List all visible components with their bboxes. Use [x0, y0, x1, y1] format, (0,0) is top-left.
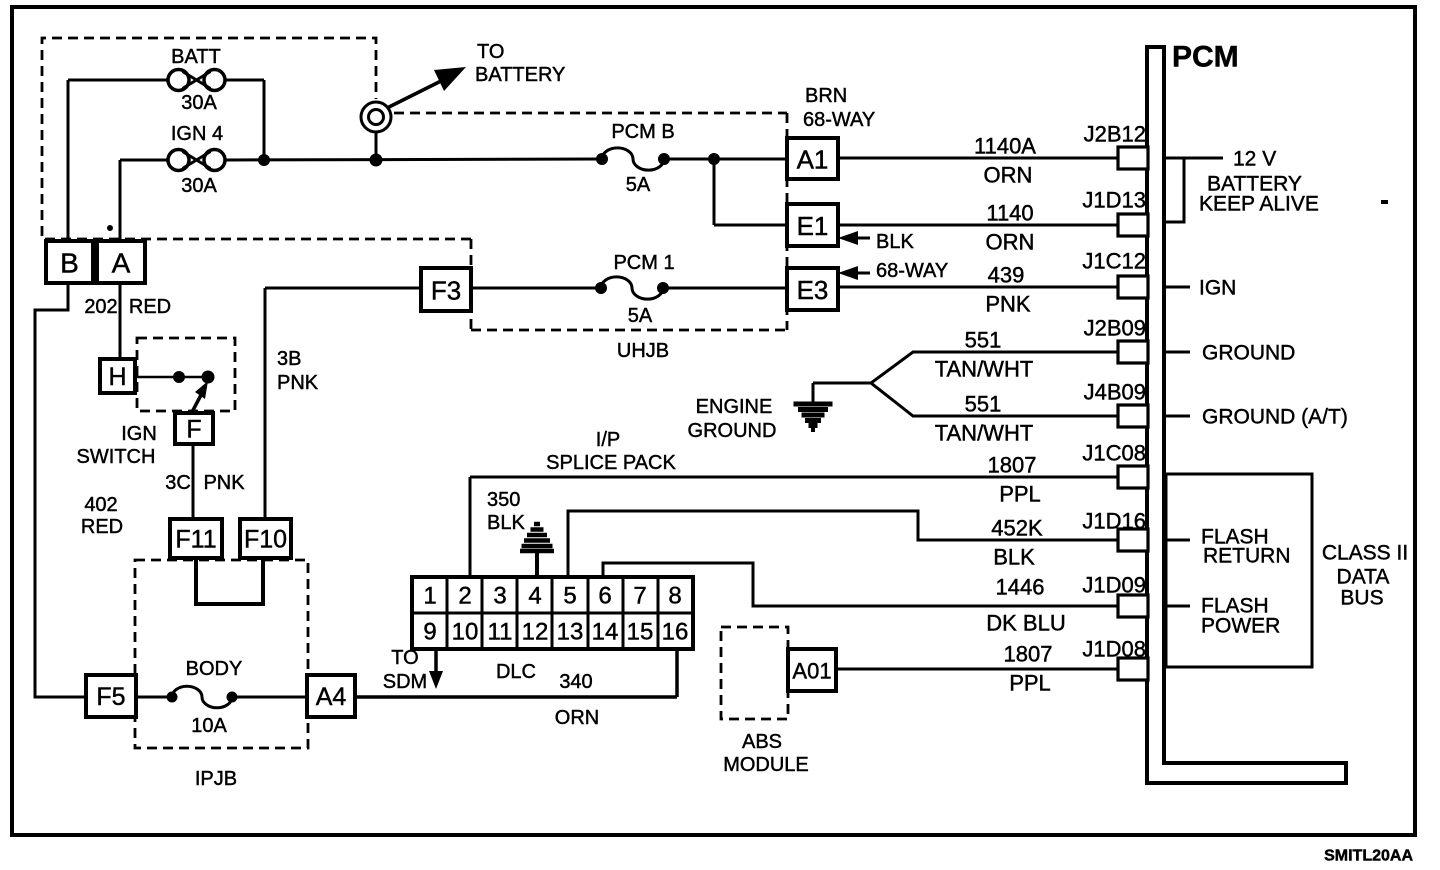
IPJB dashed enclosure — [135, 560, 308, 748]
terminal A4 — [307, 675, 355, 717]
svg-text:BLK: BLK — [876, 231, 914, 253]
svg-text:2: 2 — [458, 583, 471, 610]
svg-text:PCM 1: PCM 1 — [613, 252, 674, 274]
wire BODY fuse to A4 — [232, 696, 309, 699]
svg-text:7: 7 — [633, 583, 646, 610]
svg-text:IGN 4: IGN 4 — [171, 123, 223, 145]
PCM pin J1D16 — [1082, 509, 1148, 552]
FLASH POWER stub — [1166, 605, 1190, 608]
PCM pin J1C08 — [1082, 441, 1148, 489]
junction dot — [258, 154, 270, 166]
fuse PCM B 5A — [596, 148, 670, 170]
PCM pin J4B09 — [1084, 380, 1148, 428]
svg-text:A01: A01 — [792, 659, 831, 684]
svg-text:BATTERY: BATTERY — [475, 64, 565, 86]
wire IGN4 to PCM B fuse — [225, 159, 602, 160]
wire to engine ground — [813, 382, 871, 385]
wire 439 PNK E3 to J1C12 — [838, 286, 1120, 289]
wire label 1807 PPL — [1004, 642, 1053, 696]
svg-text:A1: A1 — [797, 145, 829, 175]
dashed UHJB enclosure left — [470, 239, 473, 330]
TO SDM arrow — [434, 649, 438, 676]
wire junction down to E1 level — [713, 159, 716, 225]
svg-text:A: A — [112, 248, 131, 279]
svg-text:452K: 452K — [991, 516, 1043, 541]
wire to terminal E1 — [714, 224, 790, 227]
svg-text:3B: 3B — [277, 348, 301, 370]
wire 1140A ORN A1 to J2B12 — [838, 157, 1120, 160]
svg-text:13: 13 — [557, 619, 584, 646]
svg-text:BODY: BODY — [186, 658, 243, 680]
svg-text:PPL: PPL — [999, 482, 1041, 507]
svg-text:H: H — [108, 363, 126, 391]
svg-text:J1D16: J1D16 — [1082, 509, 1146, 534]
svg-text:KEEP ALIVE: KEEP ALIVE — [1199, 193, 1319, 216]
connector strap F11-F10 — [196, 556, 263, 604]
svg-text:DK BLU: DK BLU — [986, 611, 1065, 636]
svg-text:BLK: BLK — [487, 512, 525, 534]
svg-text:5: 5 — [563, 583, 576, 610]
svg-text:SPLICE PACK: SPLICE PACK — [546, 452, 676, 474]
wire down to terminal B — [67, 80, 70, 243]
svg-text:340: 340 — [559, 671, 592, 693]
svg-text:1446: 1446 — [996, 575, 1045, 600]
svg-text:DLC: DLC — [496, 661, 536, 683]
svg-text:ENGINE: ENGINE — [696, 396, 773, 418]
svg-text:J1D09: J1D09 — [1082, 573, 1146, 598]
splice pack tree symbol (350 BLK) — [520, 524, 554, 579]
PCM pin J1D09 — [1082, 573, 1148, 618]
svg-text:IGN: IGN — [121, 423, 157, 445]
svg-text:8: 8 — [668, 583, 681, 610]
svg-text:MODULE: MODULE — [723, 754, 809, 776]
PCM pin J1C12 — [1082, 249, 1148, 299]
svg-text:RED: RED — [129, 296, 171, 318]
svg-text:1: 1 — [423, 583, 436, 610]
PCM pin J2B12 — [1084, 122, 1148, 170]
PCM pin J1D13 — [1082, 188, 1148, 237]
terminal F (ign switch) — [175, 413, 213, 444]
ABS MODULE dashed enclosure — [721, 627, 788, 719]
wire label 551 TAN/WHT — [935, 328, 1034, 382]
svg-text:10A: 10A — [191, 715, 227, 737]
svg-text:30A: 30A — [181, 175, 217, 197]
svg-text:ABS: ABS — [742, 731, 782, 753]
wire 3C PNK from F to F11 — [192, 444, 195, 521]
svg-text:F: F — [186, 416, 201, 444]
wire F3 to PCM 1 fuse — [471, 287, 601, 290]
svg-text:ORN: ORN — [555, 707, 599, 729]
svg-text:402: 402 — [84, 494, 117, 516]
dashed BRN 68-way connector edge — [786, 113, 789, 330]
svg-text:E3: E3 — [797, 275, 829, 305]
svg-text:POWER: POWER — [1201, 615, 1280, 638]
svg-text:F5: F5 — [96, 683, 125, 711]
wire F5 to BODY fuse — [136, 696, 172, 699]
svg-text:GROUND: GROUND — [688, 420, 777, 442]
svg-text:PNK: PNK — [985, 292, 1031, 317]
svg-text:12: 12 — [522, 619, 549, 646]
svg-text:1140A: 1140A — [974, 134, 1036, 159]
wire ground drop — [812, 383, 815, 403]
battery ring connector — [361, 102, 391, 132]
svg-text:3: 3 — [493, 583, 506, 610]
svg-text:IGN: IGN — [1199, 277, 1236, 300]
svg-text:SWITCH: SWITCH — [77, 446, 156, 468]
FLASH RETURN stub — [1166, 539, 1190, 542]
wire 1807 PPL from A01 to J1D08 — [838, 668, 1120, 671]
svg-text:PNK: PNK — [203, 472, 245, 494]
svg-text:E1: E1 — [797, 211, 829, 241]
fuse PCM 1 5A — [595, 277, 669, 299]
wire H to switch contacts — [135, 376, 208, 379]
terminal F10 — [240, 519, 291, 558]
svg-text:RED: RED — [81, 516, 123, 538]
svg-text:10: 10 — [452, 619, 479, 646]
wire to F3 left — [265, 287, 423, 290]
PCM module outline — [1147, 47, 1346, 783]
svg-text:4: 4 — [528, 583, 541, 610]
svg-text:DATA: DATA — [1337, 566, 1390, 589]
GROUND stub — [1164, 351, 1190, 354]
svg-text:RETURN: RETURN — [1203, 545, 1291, 568]
wire 340 ORN from A4 to DLC pin16 — [355, 695, 677, 699]
terminal F3 — [421, 268, 471, 311]
svg-text:PCM B: PCM B — [611, 121, 674, 143]
svg-text:BATT: BATT — [171, 46, 221, 68]
svg-text:J2B09: J2B09 — [1084, 316, 1146, 341]
wire circle to junction — [375, 133, 378, 160]
wire 402 RED from B to F5 — [35, 283, 88, 697]
svg-text:551: 551 — [965, 392, 1002, 417]
svg-text:551: 551 — [965, 328, 1002, 353]
svg-text:TO: TO — [477, 41, 504, 63]
dashed wire to BRN 68-way connector — [394, 112, 787, 115]
switch contact dot — [173, 371, 185, 383]
svg-text:BLK: BLK — [993, 545, 1035, 570]
svg-text:F10: F10 — [244, 526, 287, 554]
dashed junction block enclosure (BATT/IGN fuses) — [42, 38, 471, 239]
svg-text:TAN/WHT: TAN/WHT — [935, 421, 1034, 446]
svg-text:14: 14 — [592, 619, 619, 646]
svg-text:J2B12: J2B12 — [1084, 122, 1146, 147]
12V battery keep alive bracket — [1164, 158, 1184, 222]
IGN stub — [1164, 286, 1190, 289]
stray mark — [1381, 200, 1388, 204]
svg-text:68-WAY: 68-WAY — [876, 260, 948, 282]
connector arrow at E1 — [838, 231, 870, 245]
svg-text:30A: 30A — [181, 92, 217, 114]
svg-text:IPJB: IPJB — [195, 768, 237, 790]
wire BATT fuse left lead — [68, 79, 168, 82]
svg-text:J1C08: J1C08 — [1082, 441, 1146, 466]
svg-text:B: B — [60, 248, 79, 279]
svg-text:202: 202 — [84, 296, 117, 318]
connector arrow at E3 — [838, 266, 870, 280]
TO BATTERY arrow — [387, 74, 455, 108]
wire label 439 PNK — [985, 263, 1031, 317]
wire 202 RED from A to H — [119, 283, 122, 361]
svg-text:I/P: I/P — [596, 429, 620, 451]
junction dot at battery tap — [370, 154, 383, 167]
svg-text:1807: 1807 — [1004, 642, 1053, 667]
terminal F5 — [86, 675, 136, 717]
wire label 551 TAN/WHT — [935, 392, 1034, 446]
svg-text:11: 11 — [488, 619, 513, 646]
svg-text:PNK: PNK — [277, 372, 319, 394]
wire 1140 ORN E1 to J1D13 — [838, 224, 1120, 227]
svg-text:TO: TO — [391, 647, 418, 669]
svg-text:J1D08: J1D08 — [1082, 637, 1146, 662]
svg-text:A4: A4 — [316, 683, 347, 711]
svg-text:16: 16 — [662, 619, 689, 646]
fuse BODY 10A — [167, 686, 238, 708]
svg-text:UHJB: UHJB — [617, 340, 669, 362]
svg-text:3C: 3C — [165, 472, 191, 494]
terminal F11 — [170, 519, 222, 558]
wire label 1140 ORN — [986, 201, 1035, 255]
svg-text:J4B09: J4B09 — [1084, 380, 1146, 405]
svg-text:15: 15 — [627, 619, 654, 646]
svg-text:PCM: PCM — [1172, 41, 1239, 74]
svg-text:9: 9 — [423, 619, 436, 646]
wire label 452K BLK — [991, 516, 1043, 570]
svg-text:TAN/WHT: TAN/WHT — [935, 357, 1034, 382]
stray mark — [107, 225, 113, 231]
switch contact dot — [202, 371, 215, 384]
wire down to junction — [263, 80, 266, 160]
svg-text:PPL: PPL — [1009, 671, 1051, 696]
PCM pin J1D08 — [1082, 637, 1148, 681]
svg-text:GROUND (A/T): GROUND (A/T) — [1202, 406, 1348, 429]
terminal E1 — [787, 204, 838, 246]
wire IGN 4 fuse left lead — [120, 159, 168, 162]
wire 1446 DK BLU to J1D09 — [603, 563, 1120, 606]
ignition switch dashed enclosure — [137, 338, 235, 411]
terminal H (ign switch) — [100, 359, 135, 393]
svg-text:GROUND: GROUND — [1202, 342, 1295, 365]
svg-text:5A: 5A — [626, 174, 651, 196]
svg-text:F3: F3 — [431, 276, 461, 306]
svg-text:439: 439 — [988, 263, 1025, 288]
fuse BATT 30A — [168, 70, 225, 91]
terminal E3 — [787, 268, 838, 310]
wire PCM 1 fuse to E3 — [663, 287, 790, 290]
engine ground symbol — [794, 404, 833, 432]
svg-text:ORN: ORN — [986, 230, 1035, 255]
CLASS II DATA BUS box — [1166, 474, 1312, 667]
fuse IGN 4 30A — [168, 150, 225, 171]
svg-text:J1D13: J1D13 — [1082, 188, 1146, 213]
PCM pin J2B09 — [1084, 316, 1148, 364]
dashed UHJB enclosure bottom — [471, 329, 787, 332]
wire label 1807 PPL — [988, 453, 1041, 507]
svg-text:1807: 1807 — [988, 453, 1037, 478]
wire 3B PNK down to F10 — [264, 288, 267, 521]
switch arm arrow (ignition switch wiper) — [191, 395, 201, 414]
svg-text:12 V: 12 V — [1233, 148, 1276, 171]
wire 551 pair to engine ground — [871, 352, 1120, 416]
junction dot before A1 — [708, 153, 720, 165]
terminal B — [46, 241, 93, 283]
wire 452K BLK to J1D16 — [568, 511, 1120, 579]
wire label 1446 DK BLU — [986, 575, 1065, 636]
svg-text:SMITL20AA: SMITL20AA — [1324, 848, 1413, 865]
svg-text:6: 6 — [598, 583, 611, 610]
svg-text:68-WAY: 68-WAY — [803, 109, 875, 131]
svg-text:BUS: BUS — [1340, 587, 1383, 610]
terminal A01 (ABS) — [788, 649, 836, 691]
svg-text:350: 350 — [487, 489, 520, 511]
svg-text:F11: F11 — [175, 526, 216, 554]
wire DLC pin16 drop — [675, 649, 679, 697]
wire down to terminal A — [119, 160, 122, 243]
wire DLC pin2 up — [469, 477, 472, 579]
terminal A — [97, 241, 145, 283]
wire PCM B fuse to A1 — [664, 158, 790, 161]
svg-text:J1C12: J1C12 — [1082, 249, 1146, 274]
svg-text:SDM: SDM — [383, 671, 427, 693]
DLC connector — [412, 577, 693, 649]
svg-text:5A: 5A — [628, 305, 653, 327]
svg-text:CLASS II: CLASS II — [1322, 542, 1408, 565]
svg-text:BRN: BRN — [805, 85, 847, 107]
GROUND A/T stub — [1164, 415, 1190, 418]
wire 1807 PPL to J1C08 — [470, 476, 1120, 479]
wire label 1140A ORN — [974, 134, 1036, 188]
svg-text:1140: 1140 — [986, 201, 1033, 226]
terminal A1 (BRN 68-way) — [787, 138, 838, 179]
svg-text:ORN: ORN — [984, 163, 1033, 188]
wire BATT fuse right lead — [225, 79, 264, 82]
